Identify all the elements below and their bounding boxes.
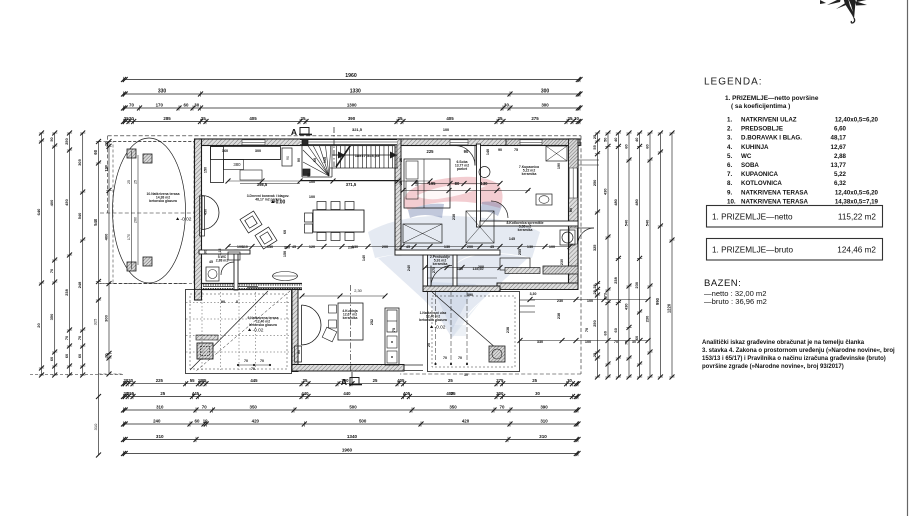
bedroom dim line 195/80/130 — [403, 190, 530, 192]
entrance 1 outline — [428, 292, 520, 372]
legend bruto box — [707, 239, 883, 261]
svg-text:48,17: 48,17 — [831, 135, 847, 142]
dimension column right 8 (1220) — [671, 133, 673, 377]
dining table — [313, 210, 364, 232]
outer wall right — [569, 139, 579, 288]
svg-text:25: 25 — [201, 116, 206, 121]
svg-text:405: 405 — [403, 391, 411, 396]
svg-text:275: 275 — [496, 378, 504, 383]
entry double door arcs — [202, 196, 219, 213]
svg-text:30: 30 — [504, 102, 509, 107]
svg-text:60: 60 — [93, 149, 98, 154]
svg-text:-0.02: -0.02 — [253, 328, 264, 334]
svg-text:130: 130 — [444, 245, 450, 249]
window top wall 1 — [242, 140, 265, 145]
svg-text:540: 540 — [645, 220, 650, 227]
svg-text:2.: 2. — [727, 126, 732, 133]
boiler — [560, 230, 575, 245]
bathroom door arc — [491, 201, 508, 218]
svg-text:25: 25 — [427, 343, 431, 347]
svg-text:390: 390 — [467, 293, 473, 297]
svg-text:300: 300 — [496, 391, 504, 396]
svg-text:238: 238 — [557, 313, 561, 319]
svg-text:310: 310 — [93, 423, 98, 430]
svg-text:405: 405 — [249, 116, 257, 121]
svg-text:225: 225 — [427, 149, 435, 154]
svg-text:160: 160 — [222, 149, 228, 153]
svg-text:405: 405 — [446, 391, 454, 396]
section line vertical — [333, 127, 335, 167]
svg-text:100: 100 — [443, 128, 449, 132]
svg-text:230: 230 — [560, 259, 564, 265]
svg-text:500: 500 — [349, 404, 357, 409]
svg-text:250: 250 — [64, 138, 69, 145]
dimension row top 1 (1960) — [124, 79, 581, 81]
stairs treads — [331, 142, 333, 169]
stairs winders — [303, 150, 329, 176]
roof overhang dashed outline — [108, 135, 581, 137]
terrace 10 ellipse canopy — [113, 138, 186, 283]
svg-text:20: 20 — [128, 378, 133, 383]
svg-text:124,46 m2: 124,46 m2 — [837, 246, 876, 255]
stairs direction arrows — [338, 152, 345, 159]
svg-text:70: 70 — [244, 359, 248, 363]
dimension column right 4 — [628, 133, 630, 377]
svg-text:betonska glazura: betonska glazura — [149, 199, 177, 203]
kotlovnica bottom wall — [497, 283, 578, 290]
svg-text:153/13 i 65/17) i Pravilnika o: 153/13 i 65/17) i Pravilnika o načinu iz… — [702, 356, 886, 362]
svg-text:2,88: 2,88 — [834, 153, 847, 160]
planter oval — [273, 272, 298, 281]
svg-text:45: 45 — [490, 245, 494, 249]
svg-text:240: 240 — [153, 418, 161, 423]
dimension row top 3 (70 170 60 30 1300 30 300) — [124, 107, 581, 109]
svg-text:200: 200 — [478, 265, 484, 269]
svg-text:70: 70 — [443, 356, 447, 360]
svg-text:A: A — [341, 377, 347, 387]
svg-text:305: 305 — [77, 158, 82, 165]
svg-text:1330: 1330 — [350, 88, 361, 94]
wall bathroom south / kotlovnica north — [480, 221, 578, 226]
svg-text:1300: 1300 — [347, 102, 357, 107]
svg-text:70: 70 — [202, 404, 207, 409]
svg-text:60: 60 — [64, 354, 69, 358]
svg-text:275: 275 — [531, 116, 539, 121]
svg-text:350: 350 — [449, 404, 457, 409]
stair side wall — [300, 180, 398, 182]
svg-text:—bruto : 36,96 m2: —bruto : 36,96 m2 — [704, 297, 767, 306]
svg-text:30: 30 — [574, 116, 579, 121]
svg-text:100: 100 — [237, 245, 243, 249]
svg-text:230: 230 — [645, 316, 650, 323]
svg-text:310: 310 — [540, 418, 548, 423]
svg-text:285: 285 — [163, 116, 171, 121]
outer wall left — [195, 139, 202, 300]
svg-text:430: 430 — [624, 303, 629, 310]
svg-text:25: 25 — [498, 116, 503, 121]
svg-text:1220: 1220 — [667, 303, 672, 313]
svg-text:2,88 m2: 2,88 m2 — [216, 259, 229, 263]
svg-text:300: 300 — [541, 88, 550, 94]
svg-text:NATKRIVENI ULAZ: NATKRIVENI ULAZ — [741, 117, 797, 124]
svg-text:300: 300 — [255, 149, 261, 153]
svg-text:640: 640 — [36, 208, 41, 215]
wall bedroom/bathroom — [477, 144, 481, 227]
svg-text:90: 90 — [307, 173, 311, 177]
wc door arc — [221, 262, 234, 275]
svg-text:površine zgrade (»Narodne nov: površine zgrade (»Narodne novine«, broj … — [702, 364, 844, 370]
svg-text:150: 150 — [204, 167, 208, 173]
svg-text:25: 25 — [373, 378, 378, 383]
stairs mid rail — [332, 154, 397, 156]
svg-text:60: 60 — [313, 158, 317, 162]
svg-text:100: 100 — [309, 180, 315, 184]
svg-text:450: 450 — [64, 199, 69, 206]
svg-text:255: 255 — [518, 249, 522, 255]
entrance 1 diagonal — [432, 292, 497, 349]
svg-text:275: 275 — [432, 267, 436, 273]
dimension row top 4 (25 20 285 ...) — [124, 121, 581, 123]
svg-text:keramika: keramika — [522, 172, 537, 176]
svg-text:230: 230 — [452, 214, 456, 220]
window right wall bedroom — [569, 168, 577, 198]
window top wall 2 — [450, 140, 468, 145]
svg-text:20: 20 — [104, 353, 109, 358]
svg-text:1. PRIZEMLJE—netto: 1. PRIZEMLJE—netto — [712, 213, 793, 222]
svg-text:321,5: 321,5 — [352, 127, 363, 132]
sideboard — [200, 196, 205, 236]
svg-text:445: 445 — [192, 391, 200, 396]
svg-text:+0.00: +0.00 — [273, 200, 286, 206]
svg-text:140: 140 — [486, 149, 490, 155]
svg-text:75: 75 — [514, 148, 518, 152]
svg-text:1.: 1. — [727, 117, 732, 124]
section dashed line through kitchen — [350, 285, 352, 372]
svg-text:70: 70 — [49, 269, 54, 273]
bedroom door arc — [455, 146, 475, 166]
corner sofa — [211, 147, 281, 160]
kitchen counter right (fridge+drawers) — [385, 308, 399, 365]
svg-text:200: 200 — [382, 245, 388, 249]
left group dashed connector — [30, 374, 124, 376]
svg-text:Analitički iskaz građevine obr: Analitički iskaz građevine obračunat je … — [702, 340, 865, 346]
svg-text:325: 325 — [93, 319, 98, 326]
svg-text:60: 60 — [603, 331, 608, 335]
wall bedroom west — [395, 139, 401, 255]
svg-text:90: 90 — [297, 350, 301, 354]
tv cabinet living — [282, 148, 292, 166]
svg-text:8: 8 — [236, 300, 238, 304]
kotlovnica closet band — [505, 268, 540, 274]
compass north arrow (cut off at top) — [820, 0, 871, 23]
svg-text:45: 45 — [209, 260, 213, 264]
svg-text:keramika: keramika — [433, 262, 448, 266]
svg-text:80: 80 — [569, 208, 573, 212]
kitchen/bottom wall — [292, 365, 404, 372]
svg-text:WC: WC — [741, 153, 752, 160]
svg-text:480: 480 — [634, 199, 639, 206]
svg-text:7.: 7. — [727, 171, 732, 178]
svg-text:30: 30 — [464, 373, 468, 377]
svg-text:LEGENDA:: LEGENDA: — [704, 77, 763, 88]
svg-text:35: 35 — [202, 378, 207, 383]
svg-text:45: 45 — [292, 245, 296, 249]
svg-text:13,77: 13,77 — [831, 162, 847, 169]
closet 2 (X) — [466, 211, 494, 243]
coffee table — [240, 170, 262, 180]
svg-text:90: 90 — [221, 300, 225, 304]
svg-text:130: 130 — [527, 245, 533, 249]
svg-text:90: 90 — [498, 148, 502, 152]
svg-text:325: 325 — [592, 244, 597, 251]
svg-text:25: 25 — [532, 378, 537, 383]
svg-text:45: 45 — [406, 245, 410, 249]
svg-text:8.: 8. — [727, 180, 732, 187]
dimension column right 2 — [607, 133, 609, 377]
svg-text:25: 25 — [303, 378, 308, 383]
svg-text:NATKRIVENA TERASA: NATKRIVENA TERASA — [741, 189, 809, 196]
svg-text:100: 100 — [309, 195, 315, 199]
terrace 9 step band — [196, 335, 218, 340]
dimension column left 1 — [98, 142, 100, 301]
svg-text:6,60: 6,60 — [834, 126, 847, 133]
entrance steps — [520, 299, 536, 301]
svg-text:70: 70 — [129, 102, 134, 107]
svg-text:150: 150 — [283, 251, 287, 257]
svg-text:540: 540 — [624, 220, 629, 227]
svg-text:60: 60 — [77, 354, 82, 358]
svg-text:25: 25 — [568, 116, 573, 121]
svg-text:390: 390 — [540, 404, 548, 409]
svg-text:540: 540 — [77, 213, 82, 220]
svg-text:200: 200 — [467, 245, 473, 249]
svg-text:10.: 10. — [727, 198, 736, 205]
svg-text:500: 500 — [359, 418, 367, 423]
svg-text:310: 310 — [156, 434, 164, 439]
svg-text:145: 145 — [509, 237, 515, 241]
entrance paving grid — [435, 292, 437, 364]
svg-text:90: 90 — [204, 250, 208, 254]
svg-text:445: 445 — [250, 378, 258, 383]
kitchen table — [338, 303, 363, 340]
svg-text:30: 30 — [567, 378, 572, 383]
dimension row bottom 2 — [124, 396, 579, 398]
bed — [404, 159, 450, 208]
svg-text:A: A — [291, 127, 297, 137]
svg-text:130: 130 — [267, 245, 273, 249]
svg-text:90: 90 — [286, 156, 290, 160]
svg-text:3. stavka 4. Zakona o prostorn: 3. stavka 4. Zakona o prostornom uređenj… — [702, 348, 895, 354]
svg-text:D.BORAVAK I BLAG.: D.BORAVAK I BLAG. — [741, 135, 802, 142]
dimension row bottom 6 (1960) — [124, 453, 579, 455]
svg-text:25: 25 — [398, 116, 403, 121]
svg-text:440: 440 — [301, 391, 309, 396]
svg-text:60: 60 — [184, 102, 189, 107]
wc washer — [206, 267, 219, 281]
kotlovnica cabinet — [500, 258, 530, 270]
closet 1 (X) — [403, 224, 442, 243]
svg-text:40: 40 — [634, 138, 639, 142]
kitchen door double arc — [302, 305, 322, 325]
dimension row bottom 3 — [124, 409, 579, 411]
svg-text:170: 170 — [127, 234, 131, 240]
svg-text:6,32: 6,32 — [834, 180, 847, 187]
terrace 9 bottom dots dim — [238, 364, 270, 366]
svg-text:250: 250 — [592, 180, 597, 187]
svg-text:450: 450 — [204, 209, 208, 215]
svg-text:25: 25 — [134, 180, 138, 184]
dimension column left 2 — [108, 142, 110, 359]
svg-text:2,30: 2,30 — [354, 288, 362, 293]
svg-text:30: 30 — [194, 102, 199, 107]
svg-text:405: 405 — [397, 378, 405, 383]
dimension column right 3 — [617, 133, 619, 377]
svg-text:70: 70 — [260, 359, 264, 363]
kitchen west wall — [292, 290, 298, 372]
svg-text:230: 230 — [634, 282, 639, 289]
svg-text:30: 30 — [535, 391, 540, 396]
svg-text:KUHINJA: KUHINJA — [741, 144, 769, 151]
dimension column right 6 — [649, 133, 651, 377]
svg-text:25: 25 — [127, 180, 131, 184]
svg-text:3,30: 3,30 — [530, 292, 537, 296]
svg-text:6.: 6. — [727, 162, 732, 169]
svg-text:BAZEN:: BAZEN: — [704, 278, 741, 289]
svg-text:4.: 4. — [727, 144, 732, 151]
sheet border line — [907, 0, 909, 516]
stairs section diagonal — [336, 143, 352, 167]
svg-text:100: 100 — [549, 245, 555, 249]
svg-text:KOTLOVNICA: KOTLOVNICA — [741, 180, 782, 187]
wall hall inner — [453, 255, 457, 291]
svg-text:255: 255 — [127, 391, 135, 396]
svg-text:25: 25 — [399, 158, 403, 162]
svg-text:480: 480 — [613, 199, 618, 206]
svg-text:115,22 m2: 115,22 m2 — [838, 213, 877, 222]
svg-text:( sa koeficijentima ): ( sa koeficijentima ) — [731, 103, 790, 110]
svg-text:-0.02: -0.02 — [435, 325, 446, 331]
svg-text:1. PRIZEMLJE—netto površine: 1. PRIZEMLJE—netto površine — [725, 95, 819, 102]
dimension row bottom 1 — [124, 383, 579, 385]
svg-text:390: 390 — [348, 116, 356, 121]
wall hall west — [423, 255, 428, 291]
svg-text:20: 20 — [36, 323, 41, 328]
svg-text:238: 238 — [64, 288, 69, 295]
svg-text:70: 70 — [64, 336, 69, 340]
terrace 10 posts — [127, 149, 136, 158]
outer wall top — [199, 139, 580, 146]
svg-text:440: 440 — [343, 391, 351, 396]
svg-text:40: 40 — [613, 138, 618, 142]
dimension row top 2 (330 1330 300) — [124, 93, 581, 95]
svg-text:540: 540 — [93, 218, 98, 226]
hall dim line — [425, 267, 500, 269]
dimension column far-left 2 — [54, 133, 56, 375]
svg-text:SOBA: SOBA — [741, 162, 759, 169]
svg-text:230: 230 — [348, 246, 354, 250]
svg-text:10: 10 — [203, 418, 208, 423]
svg-text:12,40x0,5=6,20: 12,40x0,5=6,20 — [835, 117, 879, 124]
kitchen top dim — [302, 295, 385, 297]
terrace 9 diagonal — [190, 291, 268, 370]
svg-text:380: 380 — [233, 162, 241, 167]
svg-text:160: 160 — [323, 157, 327, 163]
svg-text:310: 310 — [156, 404, 164, 409]
svg-text:252: 252 — [370, 319, 374, 325]
svg-text:248: 248 — [77, 281, 82, 288]
svg-text:238: 238 — [506, 327, 510, 333]
svg-text:90: 90 — [297, 158, 301, 162]
svg-text:1960: 1960 — [345, 73, 357, 79]
armchair squares — [240, 211, 277, 249]
svg-text:70: 70 — [77, 336, 82, 340]
hall entry door arc — [431, 266, 452, 287]
svg-text:3.: 3. — [727, 135, 732, 142]
svg-text:75: 75 — [392, 328, 396, 332]
dimension row bottom 5 — [124, 439, 579, 441]
svg-text:170: 170 — [156, 102, 164, 107]
svg-text:5,22: 5,22 — [834, 171, 847, 178]
dimension column far-left 3 — [69, 133, 71, 375]
bathroom sink — [479, 167, 490, 178]
dimension column right 1 — [597, 133, 599, 377]
svg-text:140: 140 — [362, 255, 366, 261]
terrace 9 grid lines — [186, 302, 291, 304]
svg-text:parket: parket — [457, 167, 468, 171]
interior dim lines — [228, 180, 430, 182]
watermark balloon — [368, 177, 540, 338]
svg-text:55: 55 — [190, 378, 195, 383]
svg-text:310: 310 — [539, 434, 547, 439]
wc sink — [228, 252, 240, 260]
door right wall kotlovnica (arc) — [569, 228, 577, 244]
svg-text:300: 300 — [104, 314, 109, 321]
kitchen cabinet small — [295, 346, 302, 362]
svg-text:25: 25 — [301, 116, 306, 121]
svg-text:350: 350 — [49, 314, 54, 321]
svg-text:keramika: keramika — [518, 228, 533, 232]
svg-text:70: 70 — [458, 356, 462, 360]
svg-text:430: 430 — [603, 188, 608, 195]
wall hall south — [423, 286, 500, 292]
dimension row bottom 4 — [124, 423, 579, 425]
svg-text:14,38x0,5=7,19: 14,38x0,5=7,19 — [835, 198, 879, 205]
svg-text:60: 60 — [624, 144, 629, 148]
svg-text:70: 70 — [251, 367, 255, 371]
svg-text:120: 120 — [309, 245, 315, 249]
svg-text:238: 238 — [613, 276, 618, 283]
svg-text:225: 225 — [156, 378, 164, 383]
dimension column right 5 — [639, 133, 641, 377]
outer wall bottom living room (sliding door) — [202, 283, 303, 285]
svg-text:5.: 5. — [727, 153, 732, 160]
svg-text:NATKRIVENA TERASA: NATKRIVENA TERASA — [741, 198, 809, 205]
svg-text:405: 405 — [446, 116, 454, 121]
svg-text:50: 50 — [603, 138, 608, 142]
entrance 1 pillar — [489, 346, 505, 362]
svg-text:betonska glazura: betonska glazura — [419, 318, 447, 322]
svg-text:260: 260 — [134, 217, 138, 223]
svg-text:400: 400 — [104, 233, 109, 240]
window top wall 3 — [520, 140, 542, 145]
svg-text:398,5: 398,5 — [257, 182, 268, 187]
dimension column far-left 1 (640) — [41, 133, 43, 375]
svg-text:60: 60 — [613, 328, 618, 332]
svg-text:keramika: keramika — [343, 316, 358, 320]
svg-text:1. PRIZEMLJE—bruto: 1. PRIZEMLJE—bruto — [712, 246, 793, 255]
svg-text:60: 60 — [645, 144, 650, 148]
wall wc east — [234, 250, 238, 290]
